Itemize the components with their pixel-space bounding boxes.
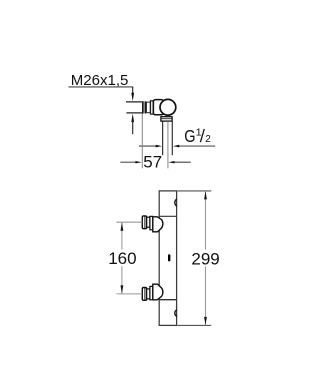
notch arc bottom [175,310,177,317]
299 top extension line [177,190,211,192]
160 down arrowhead [121,285,124,293]
notch arc top [175,199,177,206]
57 left extension line [141,114,143,169]
thread mid section [146,102,150,113]
arrow up to nipple bottom [131,114,134,123]
divider top [159,215,176,217]
valve body [153,100,163,115]
299 dim line upper [205,191,207,250]
G1/2 label underline [179,145,215,147]
svg-text:1: 1 [196,127,202,139]
svg-text:2: 2 [205,134,211,145]
pipe right edge [171,121,173,155]
top union collar [150,216,153,229]
collar mid line [161,118,172,120]
bottom union nut [142,288,146,301]
top union nut [142,216,146,229]
bottom union nut rib [144,288,146,300]
valve knob circle [160,99,176,115]
wall nipple top line [126,101,143,103]
arrow tail below [132,121,134,134]
57 right arrowhead [168,161,174,163]
thread bar 1 [142,101,144,113]
160 up arrowhead [121,223,124,231]
G1/2 right arrowhead [173,145,179,148]
temperature marker slot [168,254,170,261]
299 bottom extension line [177,324,211,326]
pipe left edge [162,121,164,155]
bar body [159,191,176,326]
bottom union thread band [147,289,150,299]
top union nut rib [144,216,146,228]
wall nipple bottom line [126,112,142,114]
160 top extension line [116,221,142,223]
svg-text:57: 57 [143,153,162,172]
299 up arrowhead [204,191,207,199]
divider bottom [159,299,176,301]
160 dim line upper [121,222,123,249]
299 down arrowhead [204,317,207,325]
leader drop M26 [132,87,134,93]
svg-text:G: G [184,127,195,147]
top union boss [153,217,163,232]
svg-text:299: 299 [191,249,219,268]
top union thread band [147,217,150,227]
thread bar 2 [145,101,147,113]
160 bottom extension line [116,293,142,295]
G1/2 left arrowhead [156,145,162,148]
svg-text:160: 160 [108,249,136,268]
G1/2 left pointer line [139,145,156,147]
thread collar [151,101,154,114]
57 dim line right [174,161,190,163]
57 left arrowhead [135,161,141,163]
299 dim line lower [205,267,207,326]
160 dim line lower [121,266,123,294]
pipe center line [167,121,169,168]
bottom union boss [153,284,163,300]
57 dim line left [120,161,136,163]
collar nut under circle [161,117,172,121]
arrow down to nipple top [131,93,134,102]
leader underline M26 [69,86,134,88]
bottom union collar [150,286,153,299]
